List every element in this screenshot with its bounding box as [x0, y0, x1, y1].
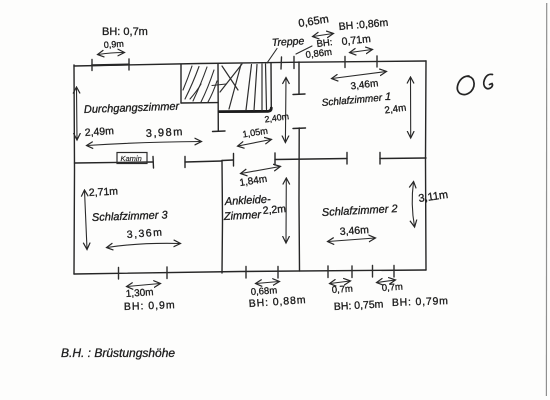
stair divider long vertical: [217, 64, 219, 131]
window ticks bottom 0,7m second: [372, 266, 374, 278]
window ticks top 0,65m: [280, 57, 283, 69]
svg-text:1,30m: 1,30m: [125, 287, 153, 300]
wall vertical ankleide-right upper stub: [298, 62, 300, 94]
svg-text:3,36m: 3,36m: [126, 226, 163, 241]
dim arrow 0,7m first: [330, 281, 350, 284]
stair right box thick bottom edge: [220, 108, 272, 112]
dim arrow 3,46m schlafzimmer2: [328, 238, 375, 242]
wall right of door to outer wall: [380, 157, 426, 160]
scan edge line right: [545, 3, 547, 396]
tick lower wall top: [293, 127, 306, 130]
svg-text:0,7m: 0,7m: [381, 282, 403, 294]
leader treppe: [267, 49, 277, 64]
kamin box: [117, 153, 147, 164]
svg-text:Treppe: Treppe: [272, 35, 305, 49]
tick stub bottom: [293, 93, 305, 96]
window ticks bottom-left 1,30m: [118, 268, 120, 280]
dim arrow 3,11m: [412, 182, 414, 227]
stair right box hatching fan: [220, 64, 267, 111]
stair right box right edge: [270, 63, 272, 110]
dim arrow 3,98m: [87, 142, 201, 146]
stair left box bottom edge: [181, 102, 218, 104]
wall outer left: [73, 65, 76, 274]
stair left box hatching: [183, 66, 217, 102]
dimension arrows: [77, 34, 415, 287]
svg-text:2,49m: 2,49m: [84, 125, 114, 139]
tick opening 1,84m left: [233, 154, 235, 167]
tick door left end: [152, 157, 155, 169]
svg-text:B.H. : Brüstungshöhe: B.H. : Brüstungshöhe: [61, 346, 175, 360]
dim arrow 0,68m: [256, 282, 279, 284]
window ticks top-left 0,9m: [92, 56, 394, 279]
dim arrow 1,84m: [241, 167, 280, 174]
wall mid-left horizontal: [75, 162, 154, 163]
dim arrow 1,05m: [238, 140, 271, 147]
dim arrow 1,30m: [127, 284, 160, 287]
window ticks bottom 0,68m: [245, 267, 247, 279]
svg-text:3,98m: 3,98m: [146, 126, 185, 140]
svg-text:1: 1: [385, 91, 391, 103]
wall outer right: [425, 61, 428, 270]
svg-text:2,71m: 2,71m: [89, 185, 119, 199]
wall mid segment to junction: [185, 161, 222, 162]
svg-text:BH: 0,9m: BH: 0,9m: [124, 299, 176, 313]
tick at stair divider bottom: [213, 130, 226, 133]
svg-text:BH: 0,79m: BH: 0,79m: [392, 295, 449, 309]
dim arrow 0,65m: [313, 34, 333, 37]
svg-text:Zimmer: Zimmer: [223, 209, 263, 223]
dim arrow 0,71m: [350, 50, 372, 53]
wall vertical ankleide-right: [298, 128, 301, 271]
svg-text:BH: 0,7m: BH: 0,7m: [102, 26, 148, 38]
wall stub right of junction: [222, 159, 233, 162]
dim arrow 2,49m: [76, 88, 79, 140]
dim arrow 0,9m top-left: [98, 53, 124, 55]
window ticks bottom 0,7m first: [327, 266, 329, 278]
dim arrow 2,2m ankleide: [285, 179, 287, 243]
stair left box left edge: [180, 65, 182, 104]
dim arrow 0,7m second: [377, 280, 395, 283]
wall outer bottom: [74, 270, 426, 274]
svg-text:0,7m: 0,7m: [331, 284, 353, 296]
dim arrow 2,40m stair: [284, 78, 287, 142]
wall outer top: [74, 61, 426, 66]
dim arrow 2,4m schlafzimmer1: [410, 78, 412, 138]
svg-text:0,9m: 0,9m: [103, 39, 124, 50]
tick door schlafzimmer2 right: [379, 153, 381, 165]
window sill emphasis top-left: [92, 64, 129, 67]
svg-text:3,46m: 3,46m: [339, 224, 369, 238]
svg-text:2,2m: 2,2m: [262, 203, 287, 217]
tick door schlafzimmer2 left: [346, 153, 348, 165]
svg-text:Kamin: Kamin: [121, 154, 142, 163]
dim arrow 2,71m: [85, 191, 88, 250]
wall vertical ankleide-left: [221, 161, 224, 274]
tick opening 1,84m right: [274, 153, 276, 165]
plus mark at stair left border: [212, 84, 226, 86]
wall ankleide top right part: [275, 159, 347, 160]
label OG: [457, 74, 492, 94]
dim arrow 3,36m: [107, 243, 180, 247]
tick door right end: [184, 157, 186, 168]
window ticks top-right 0,71m: [344, 57, 346, 68]
leader 0,65m to wall: [296, 46, 312, 54]
dim arrow 3,46m schlafzimmer1: [332, 72, 386, 79]
